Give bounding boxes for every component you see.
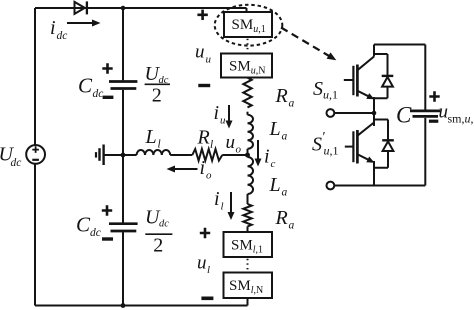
svg-text:L: L	[145, 126, 157, 148]
svg-text:i: i	[264, 146, 270, 168]
svg-text:dc: dc	[57, 30, 68, 42]
svg-text:l: l	[207, 264, 210, 276]
svg-text:dc: dc	[90, 227, 101, 239]
svg-text:u: u	[220, 115, 226, 127]
svg-text:sm,u,1: sm,u,1	[448, 112, 474, 126]
svg-text:a: a	[282, 131, 288, 143]
svg-text:i: i	[214, 102, 220, 124]
svg-text:S: S	[312, 134, 322, 156]
svg-text:C: C	[396, 103, 412, 128]
svg-text:dc: dc	[93, 88, 104, 100]
svg-text:dc: dc	[159, 75, 169, 86]
svg-text:i: i	[214, 188, 220, 210]
svg-text:l: l	[210, 139, 213, 151]
svg-text:L: L	[269, 118, 281, 140]
svg-text:2: 2	[152, 85, 162, 107]
svg-text:u: u	[206, 54, 212, 66]
svg-text:o: o	[206, 170, 212, 182]
svg-text:R: R	[197, 127, 210, 149]
svg-text:a: a	[282, 187, 288, 199]
svg-text:′: ′	[323, 130, 326, 145]
svg-text:i: i	[200, 157, 206, 179]
svg-text:u,1: u,1	[323, 88, 338, 102]
svg-text:a: a	[289, 220, 295, 232]
svg-text:o: o	[236, 144, 242, 156]
svg-text:2: 2	[153, 235, 163, 257]
svg-text:R: R	[275, 85, 288, 107]
svg-text:u,1: u,1	[324, 144, 339, 158]
svg-text:C: C	[78, 73, 93, 97]
svg-text:u: u	[197, 253, 207, 274]
svg-text:i: i	[50, 17, 56, 39]
svg-text:c: c	[271, 158, 276, 170]
svg-text:L: L	[269, 174, 281, 196]
svg-text:C: C	[76, 213, 91, 237]
svg-text:dc: dc	[11, 157, 22, 169]
svg-text:u: u	[195, 41, 205, 62]
svg-text:u: u	[226, 132, 236, 153]
svg-text:l: l	[158, 139, 161, 151]
svg-text:dc: dc	[159, 219, 169, 230]
svg-text:R: R	[275, 207, 288, 229]
svg-text:a: a	[289, 98, 295, 110]
svg-text:l: l	[221, 201, 224, 213]
svg-text:S: S	[313, 78, 323, 100]
